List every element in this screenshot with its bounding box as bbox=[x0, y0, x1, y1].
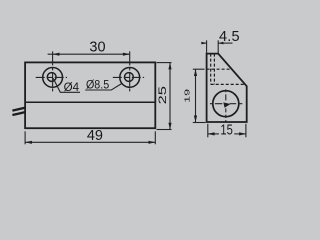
dimension 30 right arrow bbox=[123, 53, 130, 56]
left hole vertical centerline / extension bbox=[52, 51, 54, 91]
front view body outline bbox=[25, 62, 155, 128]
dimension 25 top arrow bbox=[168, 63, 171, 70]
dimension 25 top extension tick bbox=[157, 62, 172, 64]
right hole outer circle bbox=[120, 68, 140, 88]
left hole horizontal centerline bbox=[36, 76, 67, 78]
dimension 15 right arrow bbox=[239, 132, 246, 135]
side view hole circle bbox=[213, 91, 239, 117]
dimension 4.5 line right tail bbox=[218, 42, 232, 44]
svg-text:15: 15 bbox=[220, 121, 232, 138]
wire bbox=[12, 112, 25, 115]
wire bbox=[12, 108, 25, 111]
dimension 15 left arrow bbox=[208, 132, 215, 135]
dimension 19 line bbox=[195, 69, 197, 122]
svg-text:19: 19 bbox=[183, 89, 191, 103]
dimension 15 right extension tick bbox=[245, 124, 247, 138]
right hole vertical centerline / extension bbox=[129, 51, 131, 91]
side hole horizontal centerline bbox=[210, 103, 242, 105]
side hole vertical centerline bbox=[225, 89, 227, 121]
dimension 15 left extension tick bbox=[207, 124, 209, 138]
right hole inner circle bbox=[124, 73, 133, 82]
leader line for Ø4 bbox=[53, 78, 80, 92]
side hole center mark blob bbox=[223, 102, 230, 107]
hidden shoulder line (dashed) bbox=[207, 68, 232, 70]
dimension 19 top extension tick bbox=[193, 68, 205, 70]
dimension 30 left arrow bbox=[53, 53, 60, 56]
svg-text:Ø8.5: Ø8.5 bbox=[86, 79, 109, 92]
leader line for Ø8.5 bbox=[85, 84, 121, 90]
dimension 19 bottom arrow bbox=[194, 116, 197, 123]
front view step divider line bbox=[25, 101, 155, 103]
hidden hole left wall (dashed) bbox=[210, 54, 212, 85]
svg-text:30: 30 bbox=[89, 40, 105, 56]
dimension 19 top arrow bbox=[194, 69, 197, 76]
dimension 49 left arrow bbox=[25, 141, 32, 144]
hidden bottom line (dashed) bbox=[211, 83, 245, 85]
dimension 4.5 right extension line bbox=[217, 40, 219, 53]
svg-text:Ø4: Ø4 bbox=[64, 80, 80, 94]
left hole outer circle (counterbore) bbox=[43, 68, 63, 88]
svg-text:25: 25 bbox=[156, 86, 169, 105]
dimension 4.5 line left tail bbox=[201, 42, 206, 44]
hidden hole right wall (dashed) bbox=[213, 54, 215, 85]
dimension 4.5 right arrow (outside pointing left) bbox=[218, 42, 223, 45]
dimension 30 line bbox=[48, 53, 130, 55]
dimension 25 bottom arrow bbox=[168, 123, 171, 130]
svg-text:49: 49 bbox=[87, 128, 103, 144]
dimension 4.5 left arrow (outside pointing right) bbox=[201, 42, 206, 45]
dimension 15 line right segment bbox=[234, 133, 246, 135]
dimension 25 bottom extension tick bbox=[157, 129, 172, 131]
dimension 49 right extension tick bbox=[154, 131, 156, 144]
right hole horizontal centerline bbox=[113, 76, 144, 78]
dimension 4.5 left extension line bbox=[206, 40, 208, 53]
dimension 49 line bbox=[25, 141, 155, 143]
left hole inner circle bbox=[47, 73, 56, 82]
dimension 49 left extension tick bbox=[24, 131, 26, 144]
svg-text:4.5: 4.5 bbox=[219, 29, 240, 45]
dimension 15 line left segment bbox=[208, 133, 219, 135]
dimension 19 bottom extension tick bbox=[193, 122, 206, 124]
side view outline bbox=[207, 54, 247, 122]
dimension 25 line bbox=[169, 63, 171, 130]
dimension 49 right arrow bbox=[149, 141, 156, 144]
